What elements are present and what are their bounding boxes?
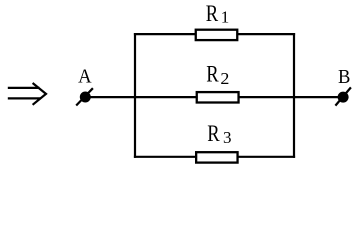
node B terminal <box>335 87 351 105</box>
label R3 <box>207 121 231 147</box>
svg-text:B: B <box>338 66 350 88</box>
wire top branch <box>134 33 295 35</box>
svg-text:1: 1 <box>221 7 230 26</box>
wire right bus <box>293 33 295 158</box>
wire bottom branch <box>134 156 295 158</box>
label R1 <box>206 1 230 27</box>
svg-text:R: R <box>206 1 219 26</box>
resistor R2 <box>197 92 239 102</box>
label R2 <box>206 62 229 88</box>
equivalence arrow <box>8 83 46 105</box>
svg-text:3: 3 <box>223 128 232 147</box>
wire A to B (middle branch) <box>90 96 339 98</box>
wire left bus <box>134 33 136 158</box>
resistor R3 <box>196 152 237 162</box>
svg-text:R: R <box>206 62 219 87</box>
svg-text:2: 2 <box>220 69 229 88</box>
svg-text:A: A <box>78 66 92 88</box>
resistor R1 <box>196 30 238 40</box>
node A terminal <box>76 88 93 105</box>
svg-text:R: R <box>207 121 220 146</box>
